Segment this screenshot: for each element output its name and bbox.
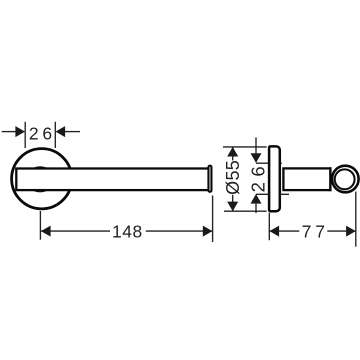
dimension Ø55: dimension line upper segment xyxy=(232,147,234,161)
bar end cap xyxy=(208,166,211,192)
dimension 26 (side): upper leader line xyxy=(255,137,257,153)
dimension 77: right arrowhead xyxy=(346,226,356,237)
svg-text:77: 77 xyxy=(302,221,329,241)
dimension 77: dimension line right segment xyxy=(327,230,355,232)
dimension 26 (front top): right arrowhead xyxy=(56,126,66,137)
dimension Ø55: top arrowhead xyxy=(227,147,238,157)
dimension 26 (front top): right leader line xyxy=(65,131,80,133)
dimension 77: left extension line (wall face) xyxy=(268,213,270,240)
dimension 26 (side): top extension line (runs under plate) xyxy=(256,162,282,164)
svg-text:148: 148 xyxy=(112,221,143,241)
dimension 26 (side): lower leader line xyxy=(255,204,257,213)
dimension 148: left extension line (from rosette centre) xyxy=(39,211,41,240)
dimension Ø55: top extension line xyxy=(223,146,267,148)
dimension 148: dimension line left segment xyxy=(41,230,110,232)
dimension 148: left arrowhead xyxy=(41,226,51,237)
dimension 26 (front top): right extension line xyxy=(54,122,56,148)
wall rosette (front view circle) xyxy=(12,149,72,209)
support arm (side view) xyxy=(283,168,330,190)
dimension 148: right extension line (bar tip) xyxy=(212,196,214,243)
svg-text:Ø55: Ø55 xyxy=(223,160,243,195)
dimension Ø55: bottom extension line xyxy=(224,210,267,212)
dimension 26 (front top): left extension line xyxy=(24,122,26,148)
dimension 26 (front top): left leader line xyxy=(2,131,16,133)
dimension 77: left arrowhead xyxy=(270,226,280,237)
holder ring outer circle xyxy=(332,166,359,193)
svg-text:26: 26 xyxy=(247,161,268,193)
dimension Ø55: dimension line lower segment xyxy=(232,195,234,211)
roll holder bar (front view) xyxy=(16,169,209,191)
holder ring inner circle xyxy=(335,169,355,189)
svg-text:26: 26 xyxy=(29,124,56,144)
dimension 26 (front top): left arrowhead xyxy=(15,126,25,137)
wall plate (side view) xyxy=(269,146,280,211)
arm to ring joint line xyxy=(329,167,331,191)
dimension 26 (side): bottom arrowhead xyxy=(251,194,262,204)
dimension 148: dimension line right segment xyxy=(146,230,213,232)
mounting post arc, top xyxy=(34,167,46,168)
mounting post arc, bottom xyxy=(34,190,46,191)
dimension 77: dimension line left segment xyxy=(270,230,300,232)
dimension Ø55: bottom arrowhead xyxy=(227,202,238,212)
dimension 26 (side): top arrowhead xyxy=(251,153,262,163)
dimension 26 (side): bottom extension line (runs under plate) xyxy=(256,193,289,195)
dimension 77: right extension line (ring tangent) xyxy=(355,192,357,247)
dimension 148: right arrowhead xyxy=(203,226,213,237)
